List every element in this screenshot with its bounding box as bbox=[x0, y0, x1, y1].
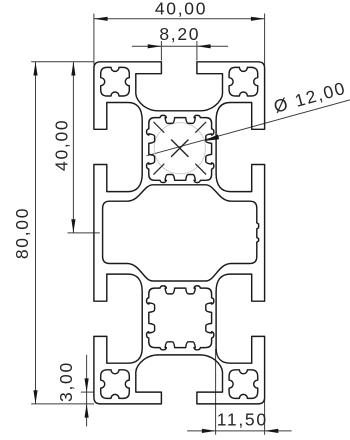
dim 40,00 top: extension lines bbox=[94, 14, 265, 69]
arrowheads 80,00 bbox=[33, 62, 37, 404]
dim 11,50: extension lines bbox=[216, 349, 265, 435]
corner screw channel 2 bbox=[229, 67, 258, 96]
bottom core channel (gear cavity) bbox=[147, 286, 214, 350]
arrowheads 40,00 top bbox=[94, 17, 265, 21]
dim 40,00 top: dimension line bbox=[94, 18, 265, 20]
leader line Ø12,00 bbox=[147, 100, 350, 156]
corner screw channel 1 bbox=[101, 67, 130, 96]
dim 80,00: dimension line bbox=[35, 62, 37, 404]
svg-text:11,50: 11,50 bbox=[217, 410, 268, 430]
center mark X in top core channel bbox=[171, 140, 188, 157]
corner tick marks in top core channel bbox=[154, 122, 207, 175]
profile outer contour with T-slots bbox=[94, 62, 265, 404]
dim 3,00: dimension line bbox=[86, 355, 88, 427]
corner screw channel 4 bbox=[229, 370, 258, 399]
dim 8,20: extension lines bbox=[161, 41, 197, 61]
svg-text:40,00: 40,00 bbox=[52, 119, 72, 171]
dim 40,00 left: extension tick at mid height bbox=[68, 232, 100, 234]
leader arrowhead Ø12,00 bbox=[204, 135, 220, 142]
dim 3,00: extension tick bbox=[81, 391, 94, 393]
arrowheads 8,20 outside bbox=[148, 44, 211, 48]
phantom circle Ø12 in top core channel bbox=[154, 123, 205, 174]
central cavity bbox=[103, 185, 259, 281]
svg-text:3,00: 3,00 bbox=[56, 361, 76, 402]
corner screw channel 3 bbox=[101, 370, 130, 399]
arrowheads 11,50 outside bbox=[202, 429, 278, 433]
svg-text:40,00: 40,00 bbox=[155, 0, 207, 18]
dim 80,00: extension lines bbox=[31, 62, 94, 404]
arrowheads 3,00 outside bbox=[85, 378, 89, 417]
dim 11,50: dimension line bbox=[187, 430, 292, 432]
top core channel (gear cavity) bbox=[147, 115, 214, 182]
svg-text:80,00: 80,00 bbox=[12, 207, 32, 259]
svg-text:8,20: 8,20 bbox=[159, 24, 200, 44]
dim 8,20: dimension line with outside tails bbox=[132, 45, 228, 47]
dim 40,00 left: dimension line bbox=[72, 62, 74, 233]
arrowheads 40,00 left bbox=[71, 62, 75, 233]
